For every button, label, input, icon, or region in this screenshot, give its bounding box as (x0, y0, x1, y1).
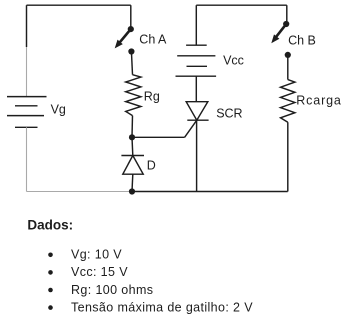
junction: Ch B top contact (283, 21, 289, 27)
wire: Vcc to SCR anode (195, 76, 197, 102)
wire: SCR cathode to bottom wire (196, 120, 198, 191)
wire: top-right horizontal (Vcc to Ch B) (196, 4, 286, 6)
wire: bottom gray (Vg- to node B) (27, 191, 133, 193)
svg-text:Vg: 10 V: Vg: 10 V (71, 247, 122, 261)
bullet 2 dot (48, 270, 53, 275)
wire: top-left horizontal (Vg+ to Ch A) (27, 4, 131, 6)
junction: Ch A top contact (128, 26, 134, 32)
svg-text:Rg: Rg (144, 90, 160, 104)
battery Vg (7, 97, 47, 128)
wire: Ch A bottom contact to Rg (132, 53, 133, 75)
svg-text:Vcc: 15 V: Vcc: 15 V (71, 265, 128, 279)
svg-text:Vg: Vg (51, 103, 66, 117)
wire: diode D to node B (131, 174, 134, 191)
svg-text:Tensão máxima de gatilho: 2 V: Tensão máxima de gatilho: 2 V (71, 301, 253, 315)
svg-text:D: D (147, 159, 156, 173)
wire: left vertical upper (Vg+ lead) (26, 5, 28, 47)
svg-text:SCR: SCR (216, 107, 242, 121)
wire: gate diagonal to SCR cathode (185, 120, 197, 137)
wire: Rcarga to bottom wire (287, 122, 289, 191)
wire: Vcc top vertical (195, 5, 197, 45)
node B (junction bottom) (129, 188, 135, 194)
bullet 1 dot (48, 253, 53, 258)
wire: bottom black (node B to Rcarga branch) (132, 191, 288, 193)
wire: node A to diode D (131, 137, 134, 155)
svg-text:Rg: 100 ohms: Rg: 100 ohms (71, 283, 153, 297)
SCR (thyristor triangle) (186, 102, 208, 121)
SCR (cathode bar) (187, 119, 208, 121)
wire: Ch A top stub (130, 5, 132, 27)
wire: Ch B bottom contact to Rcarga (287, 57, 289, 80)
node A (junction Rg/D/gate) (129, 134, 135, 140)
svg-text:Ch B: Ch B (288, 34, 316, 48)
resistor Rg (126, 75, 141, 116)
diode D (triangle) (123, 156, 143, 175)
junction: Ch A bottom contact (128, 48, 134, 54)
diode D (cathode bar) (121, 155, 144, 157)
resistor Rcarga (281, 80, 295, 123)
wire: gate horizontal from node A (132, 136, 185, 138)
wire: Ch B top stub (286, 5, 288, 22)
wire: Vg- vertical gray (26, 127, 28, 191)
wire: left vertical lower gray (to Vg top plate) (26, 47, 28, 97)
bullet 4 dot (48, 305, 53, 310)
wire: Rg to node A (131, 116, 134, 138)
bullet 3 dot (48, 288, 53, 293)
battery Vcc (176, 45, 217, 76)
junction: Ch B bottom contact (285, 52, 291, 58)
switch Ch B blade (arrow) (271, 25, 285, 43)
svg-text:Vcc: Vcc (223, 53, 244, 67)
switch Ch A blade (arrow) (115, 30, 130, 48)
svg-text:Rcarga: Rcarga (296, 93, 341, 107)
svg-text:Ch A: Ch A (139, 33, 167, 47)
svg-text:Dados:: Dados: (27, 218, 73, 233)
